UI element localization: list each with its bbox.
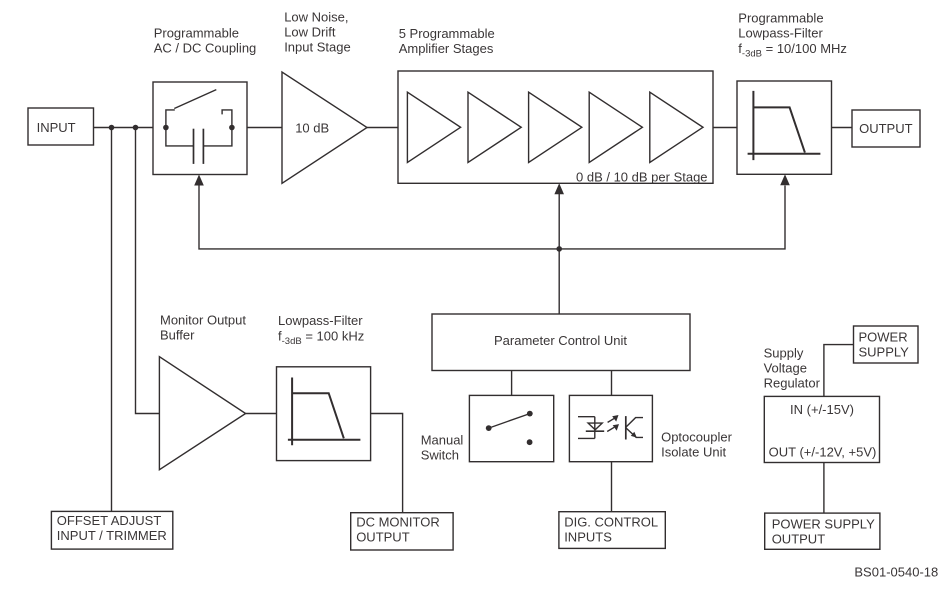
manual switch throw dot lower	[527, 439, 533, 445]
svg-text:OUTPUT: OUTPUT	[356, 530, 410, 545]
feedback control line	[199, 185, 785, 249]
wire optocoupler to dig inputs	[611, 462, 613, 512]
svg-text:f-3dB = 100 kHz: f-3dB = 100 kHz	[278, 328, 364, 346]
wire buffer to monitor filter	[246, 413, 277, 415]
wire pcu to optocoupler	[611, 371, 613, 396]
manual switch blade	[489, 414, 530, 429]
svg-text:POWER: POWER	[859, 329, 908, 344]
svg-text:Programmable: Programmable	[738, 11, 823, 26]
optocoupler light arrow lower head	[613, 424, 619, 431]
capacitor plate right	[202, 129, 204, 164]
input stage triangle	[282, 72, 367, 183]
optocoupler led cathode bar	[586, 430, 604, 432]
offset adjust box	[51, 511, 172, 549]
junction dot input 1	[109, 125, 115, 131]
svg-text:Programmable: Programmable	[154, 26, 239, 41]
arrowhead into prog filter box	[780, 174, 790, 185]
power supply box	[854, 326, 919, 363]
svg-text:Supply: Supply	[764, 345, 804, 360]
svg-text:Manual: Manual	[421, 432, 464, 447]
amp stage triangle 1	[407, 92, 460, 162]
manual switch throw dot upper	[527, 411, 533, 417]
manual switch box	[469, 395, 553, 461]
dig control inputs box	[559, 512, 665, 549]
wire junction drop to monitor buffer	[136, 128, 160, 414]
svg-text:OUTPUT: OUTPUT	[772, 531, 826, 546]
svg-text:OFFSET ADJUST: OFFSET ADJUST	[57, 513, 162, 528]
capacitor branch left inside coupling box	[166, 128, 194, 146]
capacitor branch right inside coupling box	[203, 128, 232, 146]
svg-text:AC / DC Coupling: AC / DC Coupling	[154, 41, 257, 56]
phototransistor emitter arrowhead	[631, 432, 637, 438]
monitor filter curve axes	[288, 378, 361, 446]
svg-text:10 dB: 10 dB	[295, 120, 329, 135]
OUTPUT box	[852, 110, 920, 147]
switch contact right inside coupling box	[222, 110, 232, 128]
amp stage triangle 2	[468, 92, 521, 162]
svg-text:INPUT / TRIMMER: INPUT / TRIMMER	[57, 528, 167, 543]
programmable lowpass filter box	[737, 81, 832, 174]
wire filter to output	[832, 127, 853, 129]
dc monitor output box	[351, 513, 453, 550]
svg-text:Switch: Switch	[421, 447, 459, 462]
feedback junction dot	[556, 246, 562, 252]
wire amp box to filter	[713, 127, 737, 129]
amp stage triangle 5	[650, 92, 703, 162]
monitor filter curve response	[292, 393, 344, 438]
5-stage amplifier box	[398, 71, 713, 183]
wire pcu to manual switch	[511, 371, 513, 396]
svg-text:Voltage: Voltage	[764, 361, 807, 376]
switch blade inside coupling box	[174, 90, 216, 109]
svg-text:DIG. CONTROL: DIG. CONTROL	[564, 515, 658, 530]
phototransistor emitter	[626, 428, 643, 438]
optocoupler led top lead	[578, 416, 595, 418]
wire input to coupling	[94, 127, 154, 129]
optocoupler box	[569, 395, 652, 461]
coupling right node dot	[229, 125, 235, 131]
capacitor plate left	[193, 129, 195, 164]
switch contact left inside coupling box	[166, 110, 175, 128]
wire input stage to amp box	[367, 127, 398, 129]
monitor lowpass filter box	[277, 367, 371, 461]
voltage regulator box	[764, 396, 879, 462]
prog filter curve axes	[748, 91, 821, 160]
AC/DC coupling box	[153, 82, 247, 175]
amp stage triangle 4	[589, 92, 642, 162]
INPUT box	[28, 108, 94, 145]
monitor buffer triangle	[159, 357, 245, 470]
wire coupling to input stage	[247, 127, 282, 129]
parameter control unit box	[432, 314, 690, 371]
svg-text:SUPPLY: SUPPLY	[859, 345, 910, 360]
manual switch pole dot	[486, 425, 492, 431]
optocoupler led vertical	[594, 417, 596, 439]
amp stage triangle 3	[529, 92, 582, 162]
wire regulator to ps output	[823, 463, 825, 514]
feedback mid vertical to amp box	[558, 194, 560, 314]
phototransistor base bar	[625, 416, 627, 439]
svg-text:f-3dB = 10/100 MHz: f-3dB = 10/100 MHz	[738, 41, 847, 59]
svg-text:INPUT: INPUT	[37, 120, 76, 135]
svg-text:Amplifier Stages: Amplifier Stages	[399, 41, 494, 56]
coupling left node dot	[163, 125, 169, 131]
svg-text:5 Programmable: 5 Programmable	[399, 26, 495, 41]
svg-text:Optocoupler: Optocoupler	[661, 430, 732, 445]
svg-text:DC MONITOR: DC MONITOR	[356, 515, 440, 530]
svg-text:Monitor Output: Monitor Output	[160, 313, 246, 328]
wire junction drop to offset adjust	[111, 128, 113, 512]
svg-text:INPUTS: INPUTS	[564, 529, 612, 544]
optocoupler light arrow upper shaft	[608, 418, 615, 422]
optocoupler light arrow lower shaft	[607, 427, 614, 431]
junction dot input 2	[133, 125, 139, 131]
optocoupler led triangle	[588, 423, 602, 430]
svg-text:Low Drift: Low Drift	[284, 25, 336, 40]
wire power supply to regulator	[824, 345, 854, 397]
svg-text:Low Noise,: Low Noise,	[284, 10, 348, 25]
svg-text:Lowpass-Filter: Lowpass-Filter	[738, 26, 823, 41]
phototransistor collector	[626, 418, 643, 428]
svg-text:OUT (+/-12V, +5V): OUT (+/-12V, +5V)	[769, 445, 877, 460]
wire monitor filter to dc monitor output	[371, 414, 403, 513]
svg-text:Regulator: Regulator	[764, 375, 821, 390]
svg-text:OUTPUT: OUTPUT	[859, 121, 913, 136]
svg-text:Buffer: Buffer	[160, 328, 195, 343]
svg-text:BS01-0540-18: BS01-0540-18	[854, 565, 938, 580]
optocoupler light arrow upper head	[612, 415, 618, 422]
arrowhead into amp box	[554, 183, 564, 194]
svg-text:Input Stage: Input Stage	[284, 40, 351, 55]
svg-text:Isolate Unit: Isolate Unit	[661, 445, 726, 460]
prog filter curve response	[753, 107, 805, 152]
svg-text:Parameter Control Unit: Parameter Control Unit	[494, 333, 627, 348]
optocoupler led bottom lead	[578, 437, 595, 439]
svg-text:IN (+/-15V): IN (+/-15V)	[790, 402, 854, 417]
arrowhead into coupling box	[194, 175, 204, 186]
svg-text:0 dB / 10 dB per Stage: 0 dB / 10 dB per Stage	[576, 170, 708, 185]
power supply output box	[765, 513, 880, 549]
svg-text:POWER SUPPLY: POWER SUPPLY	[772, 517, 875, 532]
svg-text:Lowpass-Filter: Lowpass-Filter	[278, 313, 363, 328]
